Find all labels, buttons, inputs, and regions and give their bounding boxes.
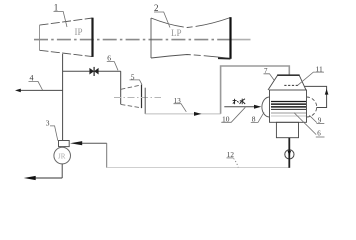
label 11 (298, 64, 324, 85)
makeup water text 补水 (233, 99, 246, 105)
small turbine centerline (114, 97, 161, 99)
small turbine exhaust pipe (144, 88, 146, 114)
label 9 (309, 115, 324, 124)
dome baffle (item 11) (284, 84, 299, 86)
extraction branch to valve (63, 70, 90, 72)
cooling water outlet loop with up arrow (305, 86, 329, 107)
svg-text:6: 6 (107, 53, 111, 62)
condensate riser (106, 143, 108, 168)
condensate pump (item 12 pump) (285, 138, 294, 168)
condenser shell body (270, 90, 307, 122)
IP turbine (item 1) (40, 18, 93, 57)
label 10 (221, 107, 245, 123)
makeup water line (item 10) (224, 105, 261, 109)
extraction pipe from IP (vertical) (62, 54, 64, 141)
left water box (item 8) (262, 97, 270, 117)
svg-text:1: 1 (54, 2, 59, 12)
condensate line into JR with arrow (70, 141, 107, 145)
label 13 (174, 97, 187, 112)
valve (item 6) (89, 67, 98, 76)
label 12 (227, 151, 239, 167)
gland steam heater JR (item 3) (54, 141, 71, 164)
svg-text:IP: IP (75, 27, 83, 37)
label 5 (130, 72, 143, 84)
svg-text:LP: LP (171, 28, 182, 38)
label 6 lower (294, 113, 325, 138)
condensate bottom run (item 12) (107, 167, 290, 169)
JR drain out with arrow (24, 164, 63, 180)
LP exhaust duct to condenser (221, 66, 290, 114)
condenser steam dome (item 7) (268, 75, 306, 90)
svg-text:JR: JR (58, 152, 66, 160)
label 4 (29, 74, 43, 90)
label 6 (107, 53, 118, 70)
svg-text:2: 2 (154, 3, 159, 13)
tube bundle lines (item 6 lower) (271, 102, 306, 117)
svg-text:3: 3 (46, 119, 50, 128)
label 8 (251, 112, 264, 123)
svg-text:6: 6 (317, 130, 321, 138)
exhaust line to condenser neck (item 13) (145, 113, 220, 115)
shaft centerline (34, 39, 231, 41)
label 1 (54, 2, 68, 27)
small auxiliary turbine (item 5) (121, 85, 142, 108)
hotwell (276, 122, 298, 137)
label 2 (154, 3, 170, 28)
label 3 (46, 119, 58, 141)
LP turbine (item 2) (151, 17, 231, 59)
label 7 (264, 67, 275, 80)
right water box (item 9) (307, 97, 317, 117)
extraction line with left arrow (item 4) (15, 89, 63, 93)
